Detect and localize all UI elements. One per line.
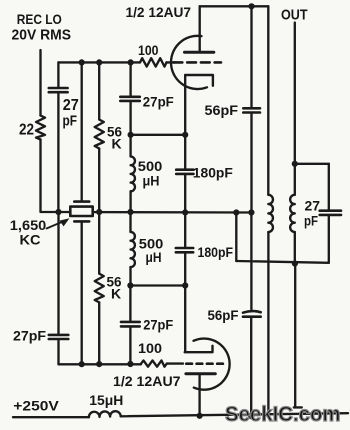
junction node: OUT link3 <box>292 161 298 167</box>
svg-text:μH: μH <box>146 249 162 265</box>
crystal XTAL 1650KC box <box>70 207 92 216</box>
junction node: mid rail x=185.2 <box>182 209 188 215</box>
tube V1 plate <box>185 51 214 54</box>
resistor 100 (bottom) <box>141 361 167 367</box>
svg-text:27pF: 27pF <box>13 328 46 344</box>
inductor L1 500uH <box>131 156 135 191</box>
resistor 56K (bottom) <box>95 274 104 303</box>
junction node: top rail x=251.5 <box>248 3 254 9</box>
junction node: grid1 rail x=81.7 <box>79 59 85 65</box>
capacitor C4 27pF plates <box>121 322 140 327</box>
svg-text:1/2 12AU7: 1/2 12AU7 <box>126 5 192 20</box>
capacitor C2 27pF plates <box>120 97 140 101</box>
capacitor C6 56pF plates <box>243 108 260 112</box>
svg-text:27: 27 <box>63 97 79 114</box>
wire: link2 y=285.5 <box>130 284 185 286</box>
svg-text:K: K <box>112 135 122 151</box>
wire: secondary lower <box>294 232 296 264</box>
tube V2 plate lead <box>198 374 200 416</box>
capacitor C9 180pF plates <box>176 248 193 252</box>
junction node: mid rail x=130.5 <box>127 209 133 215</box>
wire: chain E middle <box>184 174 186 248</box>
crystal pointer arrow <box>47 222 64 229</box>
wire: link1 y=134.8 <box>131 134 186 136</box>
capacitor C7 56pF plates <box>243 311 261 317</box>
wire: branch D to grid2 rail <box>129 327 131 364</box>
svg-text:REC LO: REC LO <box>17 11 62 27</box>
wire: branch D below L1 <box>129 191 131 212</box>
wire: bottom rail right part <box>121 413 348 416</box>
svg-text:27: 27 <box>305 198 321 214</box>
svg-text:27pF: 27pF <box>143 318 173 333</box>
capacitor C3 27pF plates <box>49 335 69 339</box>
wire: branch H primary top <box>267 6 269 195</box>
wire: grid2 lead <box>167 362 183 364</box>
wire: branch G lower <box>250 213 252 312</box>
tube V2 cathode <box>185 346 213 352</box>
tube V1 envelope <box>171 36 207 89</box>
junction node: mid rail x=251.4 <box>248 209 254 215</box>
wire: chain E lower <box>184 253 186 353</box>
wire: branch D to link1 <box>129 101 131 156</box>
svg-text:KC: KC <box>20 232 41 248</box>
svg-text:+250V: +250V <box>13 398 59 414</box>
junction node: grid2 rail x=81.7 <box>79 361 85 367</box>
wire: branch G middle <box>250 113 252 213</box>
tube V1 plate lead <box>199 6 201 52</box>
svg-text:1/2 12AU7: 1/2 12AU7 <box>113 374 181 389</box>
crystal arrowhead <box>60 218 70 226</box>
wire: OUT lead <box>294 23 296 164</box>
wire: branch D below link2 <box>129 286 131 322</box>
svg-text:20V RMS: 20V RMS <box>12 27 72 43</box>
wire: branch K upper <box>328 164 330 211</box>
wire: branch C top <box>98 62 100 119</box>
wire: grid1 lead <box>167 61 176 63</box>
svg-text:100: 100 <box>138 341 162 356</box>
wire: crystal branch top <box>81 62 83 201</box>
wire: secondary upper <box>294 164 296 195</box>
inductor L3 15uH <box>89 411 121 417</box>
wire: branch D below rail <box>129 212 131 232</box>
wire: grid1 rail y=62.4 <box>58 61 140 63</box>
wire: branch K lower <box>328 215 330 263</box>
junction node: bottom rail x=251.2 <box>248 413 254 419</box>
junction node: grid2 rail x=130.4 <box>127 361 133 367</box>
junction node: link1 right <box>182 132 188 138</box>
tube V2 grid (dashed) <box>186 362 223 365</box>
svg-text:180pF: 180pF <box>193 166 233 181</box>
svg-text:15μH: 15μH <box>89 393 123 408</box>
transformer T1 secondary winding <box>290 195 295 232</box>
junction node: grid2 rail x=99.2 <box>96 361 102 367</box>
resistor 100 (top) <box>140 58 167 66</box>
svg-text:22: 22 <box>19 121 34 138</box>
svg-text:27pF: 27pF <box>143 95 174 110</box>
resistor 56K (top) <box>95 120 104 149</box>
tube V2 envelope <box>194 339 230 390</box>
svg-text:OUT: OUT <box>281 7 308 24</box>
svg-text:56pF: 56pF <box>208 308 239 323</box>
wire: input down to mid rail corner <box>41 140 59 213</box>
wire: branch D top <box>129 62 131 96</box>
wire: mid rail y=212 <box>59 211 252 214</box>
capacitor C1 27pF plates <box>49 88 68 92</box>
svg-text:pF: pF <box>63 113 78 130</box>
wire: branch A lower vertical <box>57 212 59 364</box>
junction node: bottom rail tube plate <box>197 413 203 419</box>
wire: crystal branch bottom <box>81 222 83 365</box>
wire: branch G to bottom rail <box>250 317 252 416</box>
wire: branch A below C1 <box>57 93 59 213</box>
svg-text:180pF: 180pF <box>198 245 234 260</box>
wire: branch C to grid2 rail <box>98 302 100 364</box>
svg-text:56pF: 56pF <box>205 103 239 118</box>
junction node: mid rail x=99.2 <box>96 209 102 215</box>
wire: branch A vertical top <box>57 62 59 87</box>
junction node: mid rail x=58.5 <box>55 209 61 215</box>
tube V1 grid (dashed) <box>174 61 222 64</box>
crystal bottom plate <box>74 220 89 223</box>
wire: secondary stub to tick <box>294 264 302 408</box>
wire: bottom +250V rail <box>13 416 89 418</box>
junction node: grid1 rail x=99.2 <box>96 59 102 65</box>
resistor 22 ohm <box>36 116 45 140</box>
wire: top rail y=6.3 <box>200 5 269 7</box>
svg-text:500: 500 <box>138 158 163 174</box>
wire: branch H to bottom rail <box>267 232 269 416</box>
wire: branch G top <box>250 6 252 108</box>
svg-text:pF: pF <box>304 213 318 229</box>
junction node: grid1 rail x=130.6 <box>128 59 134 65</box>
wire: link3 y=163.8 to cap branch <box>295 163 329 165</box>
wire: branch C middle <box>98 149 100 213</box>
wire: branch D to link2 <box>129 267 131 285</box>
wire: bottom link y=261..263 <box>236 261 328 263</box>
wire: branch F link down <box>235 213 238 262</box>
svg-text:SeekIC.com: SeekIC.com <box>225 403 341 426</box>
capacitor C8 180pF plates <box>176 170 193 174</box>
inductor L2 500uH <box>131 232 135 267</box>
junction node: link1 left <box>128 132 134 138</box>
wire: cathode chain E upper <box>184 75 186 169</box>
junction node: link2 right <box>182 282 188 288</box>
junction node: link2 left <box>127 282 133 288</box>
svg-text:K: K <box>111 285 121 301</box>
capacitor C5 27pF plates <box>320 211 341 215</box>
tube V2 plate <box>186 372 215 375</box>
junction node: mid rail x=236.3 <box>233 209 239 215</box>
wire: branch C lower <box>98 212 100 274</box>
svg-text:μH: μH <box>143 173 160 189</box>
crystal top plate <box>74 200 89 203</box>
wire: REC LO input vertical <box>39 50 41 116</box>
junction node: secondary bottom <box>292 260 298 266</box>
transformer T1 primary winding <box>268 195 273 232</box>
tube V1 cathode <box>185 75 213 86</box>
wire: grid2 rail y=364 <box>59 363 142 365</box>
svg-text:100: 100 <box>138 43 159 58</box>
